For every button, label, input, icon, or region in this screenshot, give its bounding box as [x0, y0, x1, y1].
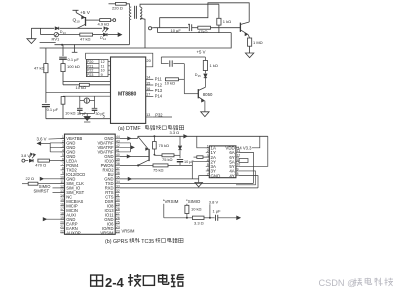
- svg-text:36: 36: [116, 171, 120, 175]
- svg-text:42: 42: [116, 144, 120, 148]
- wire pin19 gnd diamond: [43, 218, 46, 221]
- pin 17 P14: [146, 95, 154, 97]
- resistor 4.9 kOhm: [100, 19, 111, 22]
- pin 22 AUXOP / pin 23 VRSIM: [61, 232, 65, 234]
- svg-text:22 Ω: 22 Ω: [26, 176, 35, 181]
- wire Q2 emitter to 1M: [248, 35, 249, 38]
- wire 100k down: [62, 72, 64, 85]
- pin 18 AUXI / pin 27 IO11: [61, 214, 65, 216]
- capacitor feedback: [161, 63, 168, 65]
- op-amp IC U1 MT8880: [111, 57, 146, 123]
- pin 19 GND / pin 26 GND: [61, 218, 65, 220]
- wire secondary top to 1k: [140, 4, 219, 7]
- wire to arrow: [218, 217, 237, 219]
- resistor 470 Ohm: [38, 159, 50, 162]
- svg-text:47 kΩ: 47 kΩ: [34, 65, 45, 70]
- wire SIM rail: [164, 217, 193, 219]
- transformer core: [134, 6, 136, 19]
- svg-text:24: 24: [116, 225, 120, 229]
- svg-text:15: 15: [60, 198, 64, 202]
- pin 10 GND / pin 35 GND: [61, 178, 65, 180]
- svg-text:29: 29: [116, 203, 120, 207]
- svg-text:20: 20: [60, 221, 64, 225]
- resistor 75 kOhm vertical: [153, 136, 155, 141]
- svg-text:RV1: RV1: [52, 37, 60, 42]
- power +5V supply (top left): [73, 9, 79, 11]
- resistor 75 kOhm mid: [154, 154, 162, 156]
- svg-text:47kΩ: 47kΩ: [198, 29, 207, 34]
- pin 12 SIM_IO / pin 33 RXD: [61, 187, 65, 189]
- svg-text:P14: P14: [155, 94, 163, 99]
- svg-text:VRSIM: VRSIM: [165, 199, 179, 204]
- capacitor 0.1 uF (lower): [42, 103, 50, 105]
- svg-text:10 kΩ: 10 kΩ: [191, 206, 202, 211]
- svg-text:6: 6: [62, 158, 64, 162]
- svg-text:35: 35: [116, 176, 120, 180]
- resistor 10 kOhm horizontal: [63, 84, 79, 86]
- svg-text:26: 26: [116, 216, 120, 220]
- svg-text:470 Ω: 470 Ω: [35, 162, 46, 167]
- buffer pin 6 3Y / 9 4A: [206, 170, 210, 172]
- node junction on pair: [61, 44, 63, 46]
- svg-text:4Y: 4Y: [229, 173, 234, 178]
- wire buffer pin3 with resistor: [203, 156, 209, 158]
- wire VBATRF bracket: [130, 143, 132, 152]
- svg-text:16: 16: [60, 203, 64, 207]
- svg-text:0.1 μF: 0.1 μF: [47, 107, 59, 112]
- svg-text:1 kΩ: 1 kΩ: [210, 63, 218, 68]
- svg-text:10: 10: [76, 20, 80, 24]
- svg-text:GND: GND: [211, 173, 221, 178]
- svg-text:19: 19: [60, 216, 64, 220]
- resistor 220 Ohm: [109, 3, 116, 5]
- wire primary bottom to bus: [128, 19, 130, 45]
- wire lower phone segment: [157, 28, 159, 33]
- diode D13: [55, 27, 59, 30]
- svg-text:P13: P13: [155, 88, 163, 93]
- svg-text:SIMIO: SIMIO: [188, 199, 201, 204]
- pin 14 NC / pin 31 CTS: [61, 196, 65, 198]
- svg-text:220 Ω: 220 Ω: [112, 5, 123, 10]
- svg-text:5: 5: [207, 163, 209, 167]
- svg-text:MT8880: MT8880: [118, 91, 137, 97]
- svg-text:1 kΩ: 1 kΩ: [223, 19, 231, 24]
- svg-text:9: 9: [237, 167, 239, 171]
- resistor 100 kOhm: [62, 59, 64, 63]
- pin 11 SIM_CLK / pin 34 TXD: [61, 182, 65, 184]
- wire pin8 down: [239, 176, 258, 188]
- svg-text:40: 40: [116, 153, 120, 157]
- resistor 47 kOhm line: [80, 33, 93, 36]
- svg-text:75 kΩ: 75 kΩ: [159, 143, 170, 148]
- wire RXD long bus: [120, 187, 258, 189]
- wire upper phone conductor: [31, 27, 54, 29]
- svg-text:VRSIM: VRSIM: [100, 231, 114, 236]
- transformer T1 secondary coil: [140, 7, 142, 19]
- svg-text:1 μF: 1 μF: [213, 209, 222, 214]
- svg-text:P23: P23: [87, 73, 93, 77]
- svg-text:32: 32: [116, 189, 120, 193]
- svg-text:+5 V: +5 V: [197, 49, 206, 54]
- pin 13 P32: [146, 116, 153, 118]
- svg-text:33: 33: [116, 185, 120, 189]
- buffer pin 7 GND / 8 4Y: [206, 175, 210, 177]
- zener diode D16: [179, 136, 181, 145]
- wire rows to MT8880: [63, 80, 111, 82]
- pin 16 MICIP / pin 29 IO8: [61, 205, 65, 207]
- svg-text:5: 5: [62, 153, 64, 157]
- wire buffer pin4 left: [192, 161, 209, 163]
- pin 5 GND / pin 40 GND: [61, 155, 65, 157]
- pin 4 GND / pin 41 VBATRF: [61, 151, 65, 153]
- svg-text:21: 21: [60, 225, 64, 229]
- svg-text:VRSIM: VRSIM: [122, 228, 136, 233]
- svg-text:+5 V: +5 V: [80, 10, 91, 16]
- transistor Q4 PNP: [148, 149, 150, 161]
- svg-text:15: 15: [146, 81, 150, 85]
- wire 47k to D14: [93, 34, 104, 36]
- wire bus junction drop: [62, 45, 64, 56]
- pin 1 VBATBB / pin 44 GND: [61, 137, 65, 139]
- svg-text:28: 28: [116, 207, 120, 211]
- svg-text:P32: P32: [155, 112, 163, 117]
- svg-text:6: 6: [207, 168, 209, 172]
- svg-text:CSDN @: CSDN @: [319, 278, 357, 288]
- svg-text:10 μF: 10 μF: [184, 160, 194, 164]
- wire secondary bottom down: [140, 18, 145, 48]
- svg-text:39: 39: [116, 158, 120, 162]
- wire feedback vertical: [183, 64, 185, 94]
- pin 16 P13: [146, 90, 154, 92]
- resistor 1 kOhm pullup: [204, 57, 206, 61]
- svg-text:100 kΩ: 100 kΩ: [67, 64, 80, 69]
- pin 17 MICIN / pin 28 IO13: [61, 209, 65, 211]
- ground below 1M: [245, 53, 253, 58]
- svg-text:3.3 Ω: 3.3 Ω: [170, 130, 180, 135]
- wire Q10 base: [77, 24, 85, 28]
- ground below 8050: [201, 112, 209, 117]
- resistor 10 kOhm feedback: [165, 78, 178, 81]
- svg-text:10 μF: 10 μF: [171, 28, 182, 33]
- wire joining pair: [40, 28, 42, 34]
- capacitor 10 uF: [188, 24, 190, 31]
- wire base 8050: [184, 93, 198, 95]
- wire crystal caps to ground: [79, 110, 81, 113]
- wire pin38 to collector node: [120, 164, 138, 166]
- wire bottom rail to pin5: [46, 118, 111, 120]
- pin 6 LEDA / pin 39 IO10: [61, 160, 65, 162]
- transistor Q2 line driver: [239, 23, 241, 32]
- pin 20 EARP / pin 25 IO6: [61, 223, 65, 225]
- svg-text:23: 23: [116, 230, 120, 234]
- wire VRSIM drop: [163, 204, 165, 218]
- wire 47k column from bus: [45, 48, 47, 64]
- svg-text:25: 25: [116, 221, 120, 225]
- svg-text:37: 37: [116, 167, 120, 171]
- svg-text:18: 18: [60, 212, 64, 216]
- svg-text:17: 17: [60, 207, 64, 211]
- resistor 3.3 Ohm SIM: [192, 216, 204, 219]
- svg-text:AUXOP: AUXOP: [66, 231, 81, 236]
- wire stub tick on bus: [74, 44, 76, 52]
- buffer pin 2 1Y / 13 6A: [206, 151, 210, 153]
- wire 220R to primary: [126, 4, 129, 7]
- svg-text:10 kΩ: 10 kΩ: [65, 111, 76, 116]
- svg-text:14: 14: [146, 76, 150, 80]
- wire TXD long bus: [120, 182, 254, 184]
- wire pair break symbol: [40, 42, 56, 44]
- wire VDD to 3.3 rail: [252, 136, 260, 148]
- wire riser to collector rail: [160, 3, 250, 28]
- buffer IC U2 hex level shifter: [209, 146, 236, 178]
- diode D14 protection: [103, 33, 107, 36]
- pin 14 P11 with 10k: [146, 78, 154, 80]
- GPRS module IC U3 TC35: [65, 134, 116, 234]
- svg-text:7: 7: [62, 162, 64, 166]
- svg-text:41: 41: [116, 149, 120, 153]
- crystal X1: [79, 96, 81, 108]
- svg-text:8: 8: [62, 167, 64, 171]
- wire lower phone conductor: [41, 34, 55, 36]
- svg-text:27: 27: [116, 212, 120, 216]
- wire return loop: [40, 33, 232, 48]
- svg-text:8: 8: [237, 172, 239, 176]
- pin 21 EARN / pin 24 IO/RD: [61, 227, 65, 229]
- wire row y96 oscillator rail: [63, 95, 111, 97]
- wire pin10 with diamond: [40, 177, 43, 180]
- transistor Q3 8050: [197, 89, 199, 98]
- svg-text:2-4: 2-4: [105, 275, 125, 290]
- svg-text:3.8 V: 3.8 V: [209, 199, 219, 204]
- svg-text:20: 20: [146, 58, 151, 63]
- svg-text:22: 22: [60, 230, 64, 234]
- varistor RV1: [54, 32, 58, 36]
- svg-text:31: 31: [116, 194, 120, 198]
- wire cap to bottom rail: [45, 107, 47, 119]
- wire row y92: [46, 91, 111, 93]
- transformer T1 primary coil: [129, 7, 131, 19]
- svg-text:17: 17: [146, 93, 150, 97]
- wire VBAT bracket with arrow: [37, 142, 41, 145]
- svg-text:75 kΩ: 75 kΩ: [153, 167, 164, 172]
- svg-text:10 kΩ: 10 kΩ: [165, 81, 176, 86]
- svg-text:1 MΩ: 1 MΩ: [253, 40, 263, 45]
- wire 47k to Q2 base: [211, 27, 241, 29]
- svg-text:47 kΩ: 47 kΩ: [80, 37, 91, 42]
- capacitor 30 pF left: [77, 107, 83, 109]
- ground top-left: [30, 28, 32, 38]
- pin 15 MICBIAS / pin 30 DSR: [61, 200, 65, 202]
- svg-text:TC35: TC35: [141, 239, 154, 245]
- svg-text:30 pF: 30 pF: [96, 112, 106, 116]
- wire emitter to ground: [204, 101, 206, 112]
- wire 1M to ground: [249, 46, 251, 53]
- wire pin10 to right rail: [239, 136, 268, 166]
- wire to buffer pin4: [191, 162, 193, 179]
- wire tip line: [153, 27, 188, 29]
- pin 9 IO12/DCD / pin 36 BU: [61, 173, 65, 175]
- svg-text:9: 9: [101, 73, 103, 77]
- wire buffer pin7 to ground: [199, 176, 210, 183]
- svg-text:75 kΩ: 75 kΩ: [162, 157, 173, 162]
- svg-text:8050: 8050: [203, 92, 213, 97]
- resistor 47 kOhm (bias): [44, 64, 48, 73]
- pin 13 SIM_RST / pin 32 RTS: [61, 191, 65, 193]
- wire to transformer arrow: [108, 34, 119, 36]
- svg-text:0.1 μF: 0.1 μF: [68, 57, 80, 62]
- buffer pin 1 1A / 14 VDD: [206, 147, 210, 149]
- svg-text:34: 34: [116, 180, 120, 184]
- pin label block P20-P23: [86, 59, 108, 76]
- svg-text:3.6 V: 3.6 V: [37, 136, 47, 141]
- buffer pin 4 2Y / 11 5A: [206, 161, 210, 163]
- wire RV1 to 47k: [59, 34, 80, 36]
- svg-text:12: 12: [237, 153, 241, 157]
- capacitor 10 uF (b): [179, 155, 181, 158]
- resistor 1 MOhm: [248, 38, 252, 46]
- resistor 10 kOhm vertical: [61, 97, 65, 105]
- svg-text:P12: P12: [155, 82, 163, 87]
- wire Q10 collector: [86, 19, 100, 21]
- capacitor 30 pF right: [92, 107, 98, 109]
- svg-text:3.3 Ω: 3.3 Ω: [194, 220, 204, 225]
- svg-text:2: 2: [207, 149, 209, 153]
- wire pin35 to gnd rail: [120, 178, 199, 180]
- pin 8 TXD2 / pin 37 RXD2: [61, 169, 65, 171]
- buffer pin 3 2A / 12 6Y: [206, 156, 210, 158]
- svg-text:13: 13: [146, 113, 150, 117]
- svg-text:10 kΩ: 10 kΩ: [76, 85, 87, 90]
- diode D15: [204, 71, 206, 74]
- capacitor 0.1 uF (top): [59, 56, 67, 58]
- resistor 75 kOhm lower: [138, 164, 153, 166]
- wire buffer pin1 to rail: [197, 136, 210, 148]
- wire pin40 to Q4 base: [120, 155, 149, 157]
- svg-text:SIMRST: SIMRST: [34, 189, 50, 194]
- wire TC35 pin44 to level shifter: [120, 137, 138, 139]
- svg-text:16: 16: [146, 87, 150, 91]
- svg-text:38: 38: [116, 162, 120, 166]
- resistor 10 kOhm SIM: [186, 204, 188, 206]
- svg-text:9: 9: [62, 171, 64, 175]
- svg-text:(b) GPRS: (b) GPRS: [105, 239, 128, 245]
- wire D13 to D14: [60, 27, 102, 29]
- svg-text:30: 30: [116, 198, 120, 202]
- svg-text:(a) DTMF: (a) DTMF: [118, 126, 141, 132]
- svg-text:14: 14: [60, 194, 64, 198]
- svg-text:44: 44: [116, 135, 120, 139]
- wire 47k col down: [45, 73, 47, 103]
- wire cap to 47k: [192, 27, 198, 29]
- svg-text:P11: P11: [155, 77, 163, 82]
- top rail 3.3V of level shifter: [138, 135, 268, 137]
- svg-text:43: 43: [116, 140, 120, 144]
- node terminal circle phone tip: [149, 27, 152, 30]
- wire pin13 bus down: [239, 152, 253, 183]
- wire D15 to Q3 collector: [204, 78, 206, 88]
- wire pin9 stub bottom: [236, 171, 256, 185]
- resistor 1 kOhm line feed: [217, 18, 221, 25]
- pin 3 GND / pin 42 VBATRF: [61, 146, 65, 148]
- pin 2 GND / pin 43 VBATRF: [61, 142, 65, 144]
- capacitor 1 uF: [214, 215, 216, 221]
- pin 15 P12: [146, 84, 154, 86]
- resistor 47 kOhm series: [198, 26, 211, 29]
- svg-text:4.9 kΩ: 4.9 kΩ: [98, 21, 110, 26]
- buffer pin 5 3A / 10 5Y: [206, 165, 210, 167]
- node terminal circle: [113, 19, 116, 22]
- wire pair to transformer: [55, 44, 130, 46]
- resistor between pin12/pin11: [239, 159, 248, 163]
- ground crystal: [84, 116, 91, 120]
- figure caption 2-4: [91, 275, 103, 286]
- pin 7 POW4 / pin 38 PWON: [61, 164, 65, 166]
- ground buffer: [195, 183, 203, 187]
